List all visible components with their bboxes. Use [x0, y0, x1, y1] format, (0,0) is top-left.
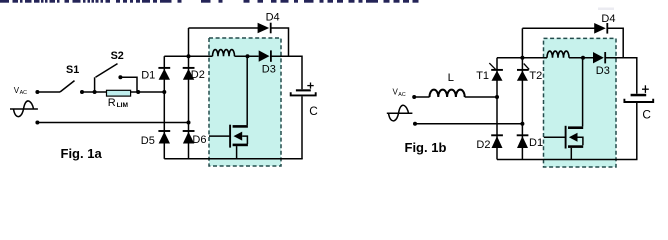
- inductor L input (Fig. 1b): [430, 90, 465, 97]
- svg-text:D3: D3: [596, 65, 610, 77]
- svg-text:D5: D5: [141, 135, 155, 147]
- node: MOSFET drain junction (Fig. 1b): [581, 56, 585, 60]
- svg-text:D3: D3: [262, 64, 276, 76]
- faint smudge: [598, 8, 614, 11]
- wire: inductor to D3 anode (Fig. 1b): [569, 57, 593, 59]
- svg-text:D1: D1: [141, 70, 155, 82]
- svg-text:Fig. 1b: Fig. 1b: [405, 140, 447, 155]
- node: S1 right contact: [80, 90, 84, 94]
- node: bridge right midpoint (Fig. 1b): [520, 122, 524, 126]
- node: bridge left midpoint (Fig. 1b): [495, 95, 499, 99]
- MOSFET Q1 source tie: [242, 136, 247, 144]
- svg-text:D4: D4: [601, 13, 615, 25]
- MOSFET Q2 gate bar: [565, 126, 567, 149]
- wire: MOSFET source to bottom rail: [236, 146, 238, 159]
- switch S2 blade: [96, 64, 118, 78]
- AC source V_AC (Fig. 1b): [387, 105, 413, 121]
- inductor L2 boost (Fig. 1b): [547, 51, 569, 58]
- switch S1 blade: [60, 81, 75, 92]
- svg-text:D6: D6: [192, 134, 206, 146]
- wire: D4 riser (Fig. 1b): [521, 28, 523, 57]
- wire: bridge left leg: [163, 56, 165, 159]
- wire: top rail to D4 anode: [189, 27, 259, 29]
- MOSFET Q1 drain plate: [233, 125, 248, 128]
- inductor L1 boost (Fig. 1a): [213, 50, 235, 57]
- boost cell dashed box (Fig. 1b): [544, 38, 617, 167]
- diode D2: [183, 68, 195, 80]
- wire: bottom rail (Fig. 1a): [164, 158, 302, 160]
- wire: MOSFET source to bottom rail (Fig. 1b): [570, 148, 572, 160]
- node: Rlim left junction: [93, 90, 97, 94]
- MOSFET Q2 body arrow: [569, 133, 578, 142]
- boost cell dashed box (Fig. 1a): [209, 38, 281, 166]
- svg-text:LIM: LIM: [117, 102, 129, 109]
- wire: AC hot to switch S1: [37, 91, 60, 93]
- diode D4 (Fig. 1a): [258, 23, 271, 34]
- diode D4 (Fig. 1b): [594, 23, 607, 34]
- svg-text:T1: T1: [476, 70, 489, 82]
- wire: capacitor to bottom rail (Fig. 1b): [636, 103, 638, 160]
- wire: capacitor to bottom rail: [301, 96, 303, 158]
- label R_LIM: [108, 97, 129, 109]
- node: Rlim right junction: [136, 90, 140, 94]
- plus sign (Fig. 1a): [307, 83, 313, 89]
- diode D5: [158, 131, 170, 144]
- wire: bottom rail (Fig. 1b): [497, 159, 638, 161]
- svg-text:Fig. 1a: Fig. 1a: [61, 146, 103, 161]
- thyristor T2: [517, 64, 529, 81]
- node: source bottom terminal (Fig. 1b): [413, 122, 417, 126]
- label V_AC (Fig. 1b): [393, 88, 406, 98]
- diode D3 (Fig. 1a): [259, 50, 271, 61]
- node: S2 right contact: [118, 75, 122, 79]
- MOSFET Q1 source plate: [233, 144, 248, 147]
- svg-text:S1: S1: [66, 64, 79, 76]
- node: source bottom terminal: [35, 121, 39, 125]
- wire: bridge top bus (Fig. 1b): [497, 57, 547, 59]
- wire: D4 cathode to output node: [271, 28, 289, 56]
- MOSFET Q1 gate lead (Fig. 1a): [209, 135, 230, 137]
- wire: MOSFET drain riser: [246, 56, 248, 125]
- svg-text:AC: AC: [398, 92, 406, 98]
- wire: MOSFET drain riser (Fig. 1b): [582, 58, 584, 127]
- MOSFET Q2 gate lead (Fig. 1b): [544, 136, 565, 138]
- svg-text:S2: S2: [111, 50, 124, 62]
- MOSFET Q1 gate bar: [229, 125, 231, 148]
- svg-text:C: C: [642, 107, 651, 121]
- node: D4 tap junction: [187, 54, 191, 58]
- label V_AC (Fig. 1a): [14, 86, 27, 96]
- node: MOSFET drain junction: [246, 54, 250, 58]
- svg-text:D1: D1: [529, 137, 543, 149]
- node: source top terminal (Fig. 1b): [412, 95, 416, 99]
- capacitor C positive plate (Fig. 1a): [296, 89, 311, 91]
- wire: D3 cathode to capacitor (Fig. 1b): [605, 58, 637, 94]
- diode D3 (Fig. 1b): [593, 52, 605, 63]
- MOSFET Q2 source tie: [578, 137, 583, 145]
- diode D1: [158, 68, 170, 80]
- diode D6: [183, 131, 195, 144]
- svg-text:D4: D4: [266, 11, 280, 23]
- node: bridge right midpoint junction: [187, 121, 191, 125]
- wire: bridge right leg (Fig. 1b): [521, 58, 523, 160]
- wire: bridge top bus to boost inductor: [164, 55, 212, 57]
- svg-text:R: R: [108, 97, 116, 109]
- wire: S1 to S2/Rlim network: [82, 91, 164, 93]
- wire: S2 branch left riser: [94, 77, 96, 92]
- wire: AC return bottom (Fig. 1b): [415, 123, 522, 125]
- wire: D4 cathode to output node (Fig. 1b): [607, 28, 623, 57]
- wire: bridge right leg: [188, 56, 190, 159]
- svg-text:T2: T2: [529, 70, 542, 82]
- wire: inductor to D3 anode: [235, 55, 259, 57]
- wire: inductor to bridge left midpoint: [465, 96, 497, 98]
- capacitor C negative plate (Fig. 1a): [291, 92, 316, 95]
- capacitor C negative plate (Fig. 1b): [624, 99, 653, 102]
- wire: AC hot to inductor L: [414, 96, 429, 98]
- svg-text:D2: D2: [191, 69, 205, 81]
- thyristor T1: [489, 63, 503, 81]
- capacitor C positive plate (Fig. 1b): [631, 94, 647, 97]
- wire: top rail to D4 anode (Fig. 1b): [522, 27, 594, 29]
- svg-text:C: C: [309, 104, 318, 118]
- wire: S2 to right riser: [120, 77, 137, 92]
- wire: D4 riser: [188, 28, 190, 56]
- wire: D3 cathode to capacitor: [271, 56, 302, 89]
- wire: AC return (bottom): [37, 122, 188, 124]
- node: source top terminal: [35, 90, 39, 94]
- resistor R_LIM body: [107, 90, 131, 96]
- diode D1 (Fig. 1b): [517, 135, 529, 148]
- MOSFET Q2 source plate: [568, 145, 583, 148]
- svg-text:L: L: [448, 72, 454, 84]
- svg-text:AC: AC: [20, 90, 28, 96]
- node: bridge left midpoint junction: [162, 90, 166, 94]
- wire: bridge left leg (Fig. 1b): [496, 58, 498, 160]
- MOSFET Q1 body arrow: [234, 132, 243, 141]
- node: D4 tap junction (Fig. 1b): [520, 56, 524, 60]
- diode D2 (Fig. 1b): [491, 135, 503, 148]
- svg-text:D2: D2: [476, 139, 490, 151]
- clipped caption text fragments at top: [0, 0, 419, 3]
- plus sign (Fig. 1b): [642, 85, 649, 93]
- AC source V_AC (Fig. 1a): [10, 101, 38, 117]
- MOSFET Q2 drain plate: [568, 126, 583, 129]
